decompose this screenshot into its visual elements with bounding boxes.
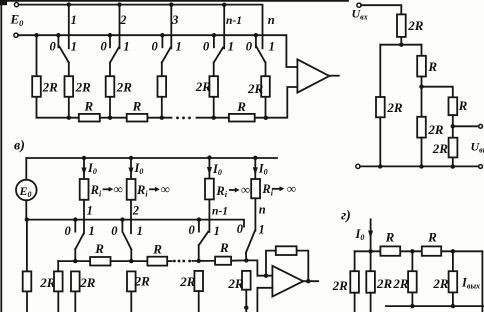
wire pole rail segment d <box>192 260 215 262</box>
node rail right <box>451 249 455 253</box>
resistor 2R terminator v <box>54 271 63 291</box>
wire I0 column <box>370 219 372 251</box>
wire 2R lead cell2 <box>109 97 111 118</box>
wire bit line 3 <box>170 5 172 49</box>
wire R series2 to node C <box>452 115 454 126</box>
wire branch 1 arrow <box>83 158 85 179</box>
wire 2R terminator link <box>36 35 38 76</box>
node rail right branch <box>451 164 455 168</box>
svg-text:1: 1 <box>87 203 93 217</box>
wire top bus circuit a <box>19 5 263 49</box>
node S2 contact 0 <box>108 33 112 37</box>
svg-text:R: R <box>427 59 437 74</box>
terminal common left <box>356 164 360 168</box>
node bottom Vn <box>244 305 248 309</box>
wire S2 pole <box>109 63 111 77</box>
node branch n <box>253 156 257 160</box>
wire 2R to node A <box>400 37 402 45</box>
wire branch n-1 arrow <box>208 158 210 179</box>
resistor 2R pole V2 <box>127 271 136 291</box>
resistor Ri branch1 <box>80 179 89 200</box>
svg-text:0: 0 <box>203 39 210 53</box>
resistor R3 <box>229 114 255 122</box>
wire node A cross <box>380 44 421 46</box>
wire E0 to lower bus <box>25 200 27 219</box>
wire ladder rail left <box>37 117 172 119</box>
wire Vn-1 pole <box>198 245 200 261</box>
node branch n-1 <box>207 155 211 159</box>
wire Uvx to 2R <box>361 5 401 14</box>
wire bit line n-1 <box>223 5 225 49</box>
node pole Vn-1 <box>197 259 201 263</box>
svg-text:0: 0 <box>111 224 118 238</box>
node rail cell n <box>264 116 268 120</box>
resistor 2R left <box>376 97 385 117</box>
svg-text:n: n <box>259 203 266 217</box>
wire E0 to top bus <box>25 158 27 180</box>
node S1 contact 0 <box>56 33 60 37</box>
svg-text:n-1: n-1 <box>212 206 228 218</box>
wire branch2 contact 1 <box>130 200 132 233</box>
switch Sn-1 arm <box>214 48 223 63</box>
resistor R3 circuit v <box>215 257 231 265</box>
resistor 2R terminator <box>32 76 41 97</box>
wire terminator corner <box>57 261 59 271</box>
arrow to infinity <box>230 189 236 191</box>
node pole V2 <box>129 259 133 263</box>
wire Sn pole <box>265 63 267 77</box>
switch Vn-1 arm <box>199 232 208 246</box>
svg-text:∞: ∞ <box>161 181 170 196</box>
wire V1 pole <box>74 249 76 261</box>
wire feedback right <box>297 251 309 282</box>
node bit line 2 <box>117 2 121 6</box>
node rail left branch <box>378 164 382 168</box>
switch V1 contact 0 tick <box>74 220 76 232</box>
wire lower bus circuit v <box>27 220 244 227</box>
wire pole rail segment e <box>231 259 246 261</box>
svg-text:1: 1 <box>259 222 265 236</box>
svg-text:0: 0 <box>152 39 159 53</box>
svg-text:1: 1 <box>123 39 129 53</box>
switch S2 contact 0 tick <box>109 35 111 47</box>
ellipsis dots <box>176 117 179 120</box>
wire pole rail segment a <box>58 260 90 262</box>
resistor 2R E0 column <box>23 271 32 291</box>
svg-text:2R: 2R <box>179 274 196 289</box>
node bit line n-1 <box>222 3 226 7</box>
node rail mid <box>410 249 414 253</box>
node B <box>419 85 423 89</box>
node bottom g3 <box>410 304 414 308</box>
node V1 contact 0 <box>73 217 77 221</box>
resistor Ri branch n <box>251 179 260 198</box>
resistor R1 <box>79 114 100 122</box>
node feedback join <box>264 274 268 278</box>
wire S1 pole <box>68 63 70 77</box>
node 2R terminator <box>34 33 38 37</box>
svg-text:2R: 2R <box>195 79 212 94</box>
node bit line 3 <box>169 2 173 6</box>
node branch 2 <box>129 156 133 160</box>
svg-text:R: R <box>84 99 94 114</box>
svg-text:2R: 2R <box>386 100 403 115</box>
wire E0 column down <box>26 220 28 272</box>
node V2 contact 0 <box>120 217 124 221</box>
wire 2R g4 link <box>452 251 454 271</box>
arrowhead I0 branch2 <box>129 168 134 176</box>
svg-text:R: R <box>219 240 229 255</box>
svg-text:0: 0 <box>237 222 244 236</box>
svg-text:2R: 2R <box>376 276 393 291</box>
wire 2R g2 lead <box>370 293 372 312</box>
wire common rail <box>360 165 479 167</box>
resistor 2R cell1 <box>65 76 74 97</box>
node A <box>399 43 403 47</box>
wire branch1 contact 1 <box>83 200 85 234</box>
wire 2R g1 link <box>354 251 356 271</box>
wire branch n-1 contact 1 <box>208 199 210 232</box>
resistor 2R pole Vn-1 <box>194 271 203 291</box>
svg-text:1: 1 <box>137 224 143 238</box>
svg-text:3: 3 <box>171 13 178 27</box>
arrowhead I0 branch n-1 <box>207 167 212 175</box>
resistor R1 circuit v <box>90 257 110 266</box>
wire 2R right to rail <box>452 157 454 166</box>
terminal common right <box>479 165 483 169</box>
resistor feedback <box>276 246 297 255</box>
switch S1 arm <box>59 47 68 63</box>
switch Vn-1 contact 0 tick <box>198 220 200 232</box>
svg-text:n-1: n-1 <box>226 15 242 27</box>
arrowhead I0 branch1 <box>82 168 87 176</box>
resistor 2R cell2 <box>106 76 115 97</box>
svg-text:R: R <box>94 241 104 256</box>
wire bottom rail circuit g <box>386 305 484 307</box>
wire Vn bottom stub <box>245 308 247 312</box>
svg-text:R: R <box>385 230 395 245</box>
node C <box>451 124 455 128</box>
resistor 2R g1 <box>350 271 359 293</box>
terminal E0 minus <box>14 33 18 37</box>
switch Sn-1 contact 0 tick <box>213 35 215 47</box>
resistor 2R g3 <box>408 271 417 292</box>
svg-text:1: 1 <box>269 39 275 53</box>
svg-text:2R: 2R <box>332 278 349 293</box>
svg-text:2R: 2R <box>75 80 92 95</box>
wire lower bus circuit a <box>18 35 297 67</box>
wire feedback left <box>266 251 276 276</box>
source E0 circle <box>16 180 37 201</box>
resistor 2R g2 <box>366 271 375 293</box>
svg-text:1: 1 <box>176 39 182 53</box>
svg-text:1: 1 <box>214 224 220 238</box>
svg-text:n: n <box>268 13 275 27</box>
arrow to infinity <box>104 188 110 190</box>
svg-text:∞: ∞ <box>241 182 250 197</box>
terminal Uvyx top <box>479 124 483 128</box>
resistor 2R cell n-1 <box>209 76 218 97</box>
svg-text:2R: 2R <box>42 80 59 95</box>
resistor R2 <box>127 114 148 122</box>
wire 2R lead cell1 <box>68 97 70 118</box>
svg-text:0: 0 <box>101 39 108 53</box>
wire 2R g4 lead <box>452 292 454 306</box>
wire bit line 1 <box>68 5 70 49</box>
svg-text:2R: 2R <box>432 141 449 156</box>
border frame top <box>0 0 348 2</box>
wire node C to output terminal <box>453 125 479 127</box>
svg-text:2: 2 <box>132 203 139 217</box>
wire node B to R series2 <box>422 87 453 98</box>
resistor R2 circuit g <box>422 246 441 255</box>
switch V2 arm <box>123 233 131 249</box>
svg-text:2R: 2R <box>432 276 449 291</box>
wire 2R g1 lead <box>354 293 356 312</box>
svg-text:в): в) <box>14 139 25 154</box>
wire 2R lead cell3 <box>161 97 163 118</box>
node rail cell1 <box>67 116 71 120</box>
resistor Ri branch n-1 <box>205 179 214 200</box>
arrowhead I0 branch n <box>253 167 258 175</box>
svg-text:2R: 2R <box>227 276 244 291</box>
node rail cell3 <box>160 116 164 120</box>
resistor R2 circuit v <box>147 257 167 266</box>
node rail cell2 <box>108 116 112 120</box>
wire 2R V2 lead <box>130 291 132 312</box>
arrow to infinity <box>150 188 156 190</box>
switch Vn arm <box>246 231 255 253</box>
wire top bus circuit v <box>26 157 277 159</box>
resistor 2R g4 <box>449 271 458 292</box>
node S3 contact 0 <box>160 33 164 37</box>
node pole V1 <box>73 259 77 263</box>
svg-text:2: 2 <box>119 13 126 27</box>
switch Sn contact 0 tick <box>255 35 257 47</box>
wire 2R lead cell n <box>265 97 267 118</box>
node bit line 1 <box>67 2 71 6</box>
wire 2R V1 lead <box>74 291 76 312</box>
node output <box>306 279 310 283</box>
wire 2R g2 link <box>370 251 372 271</box>
svg-text:2R: 2R <box>247 81 264 96</box>
wire 2R g3 link <box>411 251 413 271</box>
terminal E0 plus <box>14 3 18 7</box>
node branch 1 <box>82 156 86 160</box>
wire 2R g3 lead <box>411 292 413 306</box>
svg-text:1: 1 <box>228 39 234 53</box>
wire op-amp noninv input <box>257 288 272 312</box>
svg-text:2R: 2R <box>392 276 409 291</box>
arrow to infinity <box>273 188 280 190</box>
wire 2R Vn-1 lead <box>198 291 200 312</box>
svg-text:0: 0 <box>246 39 253 53</box>
wire node B down <box>421 87 423 117</box>
wire ladder rail right <box>197 87 298 118</box>
svg-text:R: R <box>458 98 468 113</box>
svg-text:∞: ∞ <box>287 181 296 196</box>
node rail I0 <box>368 249 372 253</box>
op-amp U2 <box>272 266 303 297</box>
svg-text:г): г) <box>341 209 351 224</box>
resistor 2R input <box>397 14 406 37</box>
resistor 2R pole Vn <box>242 271 251 290</box>
wire node C down <box>452 126 454 137</box>
wire S3 pole <box>161 63 163 77</box>
wire op-amp output <box>329 75 339 77</box>
wire 2R terminator lead <box>57 291 59 312</box>
wire 2R left to rail <box>379 117 381 166</box>
node pole Vn <box>244 258 248 262</box>
wire V2 pole <box>130 249 132 261</box>
svg-text:R: R <box>132 99 142 114</box>
switch Sn arm <box>256 47 265 63</box>
resistor 2R cell3 <box>158 76 167 97</box>
switch V2 contact 0 tick <box>121 220 123 232</box>
resistor 2R cell n <box>261 76 270 97</box>
arrowhead I0 <box>368 231 373 239</box>
node Vn-1 contact 0 <box>197 217 201 221</box>
wire branch n contact 1 <box>254 198 256 230</box>
wire op-amp input <box>246 260 272 275</box>
node E0 lower <box>25 217 29 221</box>
svg-text:2R: 2R <box>116 80 133 95</box>
wire pole rail segment b <box>111 260 148 262</box>
svg-text:2R: 2R <box>134 273 151 288</box>
terminal Uvx <box>357 3 361 7</box>
border frame left <box>0 2 2 312</box>
wire op-amp output <box>303 280 318 282</box>
node Sn-1 contact 0 <box>212 33 216 37</box>
node Sn contact 0 <box>254 33 258 37</box>
wire 2R E0 lead <box>26 291 28 312</box>
wire branch 2 arrow <box>130 158 132 179</box>
wire R to node B <box>421 77 423 87</box>
resistor R series2 <box>449 97 458 115</box>
ellipsis dots <box>173 260 176 263</box>
wire left branch <box>379 45 381 97</box>
svg-text:1: 1 <box>71 13 77 27</box>
resistor R series1 <box>417 56 426 77</box>
resistor 2R right <box>449 138 458 158</box>
svg-text:2R: 2R <box>79 275 96 290</box>
wire 2R middle to rail <box>421 138 423 167</box>
switch V1 arm <box>75 233 83 249</box>
wire top rail circuit g <box>355 251 483 312</box>
switch S3 arm <box>162 48 171 63</box>
resistor R1 circuit g <box>380 246 400 255</box>
wire 2R lead cell n-1 <box>213 97 215 118</box>
wire 2R Vn lead <box>245 290 247 308</box>
resistor 2R pole V1 <box>71 271 80 291</box>
svg-text:R: R <box>427 230 437 245</box>
svg-text:R: R <box>152 241 162 256</box>
svg-text:∞: ∞ <box>114 181 123 196</box>
wire bit line 2 <box>119 5 121 49</box>
resistor Ri branch2 <box>127 179 136 200</box>
wire branch n arrow <box>254 158 256 179</box>
wire pole rail segment c <box>167 260 172 262</box>
switch S1 contact 0 tick <box>57 35 59 47</box>
resistor 2R middle <box>417 117 426 138</box>
svg-text:2R: 2R <box>407 18 424 33</box>
wire right branch <box>421 45 423 56</box>
svg-text:0: 0 <box>50 39 57 53</box>
wire Sn-1 pole <box>213 63 215 77</box>
switch S3 contact 0 tick <box>161 35 163 47</box>
wire Vn pole <box>245 253 247 261</box>
svg-text:1: 1 <box>71 39 77 53</box>
node rail cell n-1 <box>212 116 216 120</box>
op-amp U1 <box>297 59 329 92</box>
svg-text:R: R <box>236 99 246 114</box>
switch S2 arm <box>110 48 119 63</box>
svg-text:0: 0 <box>189 223 196 237</box>
node rail middle branch <box>419 164 423 168</box>
svg-text:0: 0 <box>65 224 72 238</box>
node bottom g4 <box>451 304 455 308</box>
wire 2R lead terminator <box>36 97 38 118</box>
svg-text:1: 1 <box>89 224 95 238</box>
svg-text:2R: 2R <box>427 122 444 137</box>
